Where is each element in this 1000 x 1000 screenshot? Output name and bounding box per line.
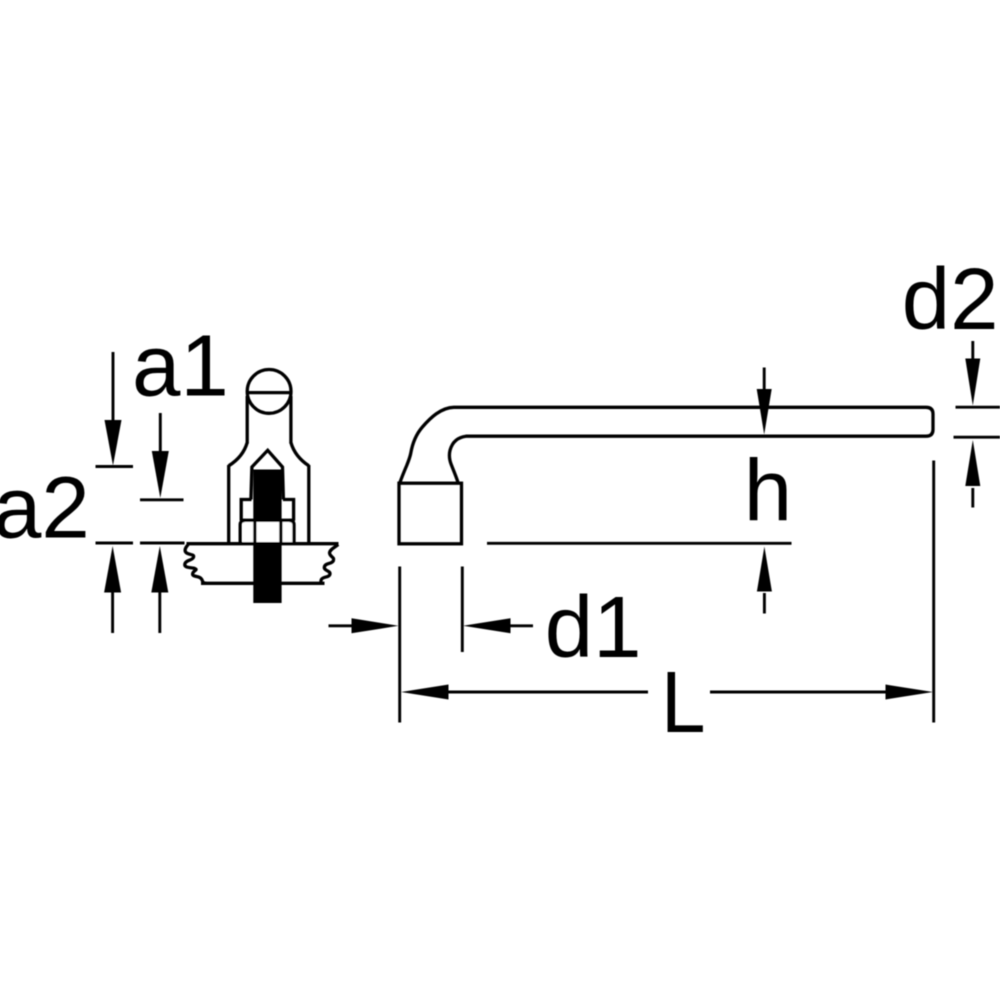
svg-text:h: h — [744, 443, 792, 540]
stem guide chevron — [251, 450, 284, 499]
svg-text:d1: d1 — [545, 579, 642, 676]
panel plate left break squiggle — [185, 545, 207, 584]
d1 left-pointing arrowhead — [463, 618, 511, 633]
d1 right-pointing arrowhead — [352, 618, 399, 633]
L left arrowhead — [401, 685, 449, 700]
a2 dim line upper — [159, 413, 162, 455]
h down arrowhead — [757, 389, 772, 435]
valve upper body left side — [246, 396, 249, 444]
valve screw head circle — [247, 370, 291, 414]
L dim line right segment — [710, 691, 887, 694]
a1 dim line lower tail — [111, 590, 114, 633]
stem guide left step — [241, 500, 251, 521]
h dim line upper — [763, 368, 766, 393]
svg-text:L: L — [661, 653, 706, 751]
h dim line lower tail — [763, 593, 766, 614]
socket rectangle — [399, 483, 462, 544]
valve wide body left side — [227, 465, 230, 544]
valve upper body right side — [289, 396, 292, 444]
nut top edge — [240, 519, 295, 522]
d2 tick bottom — [954, 436, 1000, 439]
d2 dim line lower tail — [971, 488, 974, 508]
panel plate top line — [187, 542, 339, 545]
a2 up arrowhead — [151, 546, 168, 593]
a1 up arrowhead — [104, 546, 121, 593]
panel plate right break squiggle — [320, 545, 338, 584]
valve stem lower black — [253, 543, 281, 604]
h reference line — [487, 542, 792, 545]
valve stem upper black — [253, 470, 281, 522]
tick a2 top — [140, 498, 184, 501]
nut outline — [240, 520, 294, 544]
panel plate bottom line — [201, 582, 325, 585]
d1 right extension line — [461, 567, 464, 653]
d2 down arrowhead — [965, 359, 980, 406]
stem guide right step — [283, 500, 294, 521]
d1 left extension line — [398, 567, 401, 723]
svg-text:a2: a2 — [0, 460, 90, 557]
L right arrowhead — [886, 685, 934, 700]
a1 dim line upper — [112, 352, 115, 424]
a1 down arrowhead — [105, 420, 122, 466]
d2 dim line upper — [971, 341, 974, 362]
a2 down arrowhead — [152, 451, 169, 498]
a2 dim line lower tail — [158, 590, 161, 633]
svg-text:d2: d2 — [902, 251, 999, 348]
d2 tick top — [956, 406, 1000, 409]
d1 left arrow tail — [329, 624, 355, 627]
nut white face — [243, 522, 293, 543]
L dim line left segment — [446, 691, 648, 694]
valve left shoulder — [229, 443, 248, 466]
L right extension line — [932, 461, 935, 723]
d2 up arrowhead — [965, 440, 980, 486]
valve screw slot — [248, 391, 291, 394]
valve wide body right side — [307, 465, 310, 544]
h up arrowhead — [757, 547, 772, 592]
wrench body outline: outer bend, shaft, end cap, inner bend — [400, 407, 933, 483]
tick a1 bottom — [96, 542, 134, 545]
nut face divider left — [253, 520, 256, 543]
d1 right arrow tail — [508, 624, 533, 627]
tick a2 bottom — [140, 542, 185, 545]
valve right shoulder — [291, 443, 309, 466]
nut face divider right — [279, 520, 282, 543]
svg-text:a1: a1 — [132, 318, 229, 415]
tick a1 top — [96, 465, 134, 468]
